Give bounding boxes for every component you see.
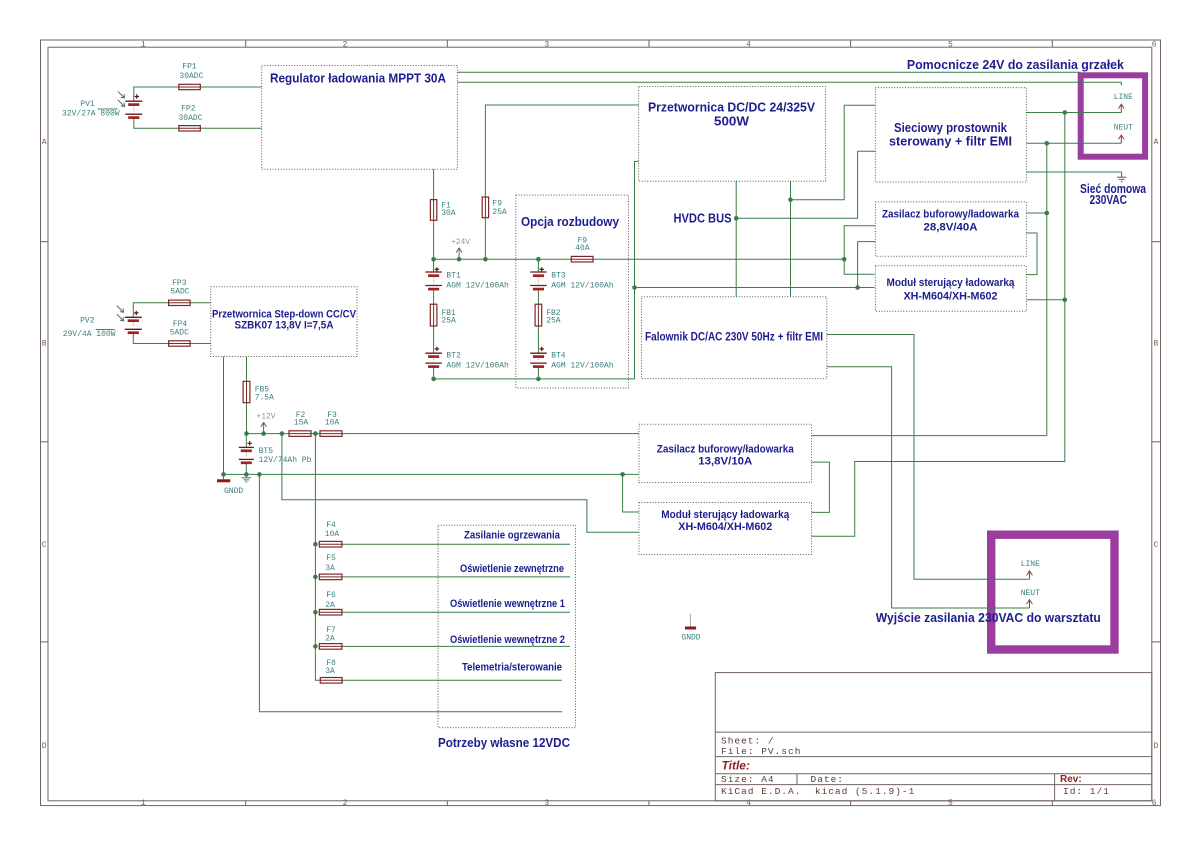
label FP2 fields [178, 105, 202, 123]
battery BT5 [239, 441, 254, 463]
svg-text:BT5: BT5 [259, 447, 274, 456]
junction nodes [221, 110, 1067, 649]
wire F9a to +24V bus [484, 218, 486, 260]
svg-text:12V/74Ah Pb: 12V/74Ah Pb [259, 456, 312, 465]
svg-text:AGM 12V/100Ah: AGM 12V/100Ah [551, 282, 614, 291]
svg-text:FP1: FP1 [182, 62, 197, 71]
label F3 fields [325, 411, 340, 428]
svg-text:F6: F6 [326, 591, 336, 600]
svg-text:Date:: Date: [811, 774, 845, 785]
wire GNDD bus [224, 473, 640, 475]
svg-text:6: 6 [1152, 799, 1157, 808]
wire Zasilacz24 in2 down to Modul24 wire [858, 242, 876, 288]
wire FP2 to MPPT in2 [200, 127, 261, 129]
wire battery bottom bus [434, 378, 635, 380]
wire BT5 minus stub [245, 464, 247, 474]
svg-text:SZBK07 13,8V I=7,5A: SZBK07 13,8V I=7,5A [235, 320, 334, 332]
wire Falownik out2 to NEUT2 pin [827, 367, 1030, 608]
svg-text:Id: 1/1: Id: 1/1 [1063, 786, 1110, 797]
wire DCDC in to F9a [485, 105, 638, 197]
svg-text:Zasilacz buforowy/ładowarka: Zasilacz buforowy/ładowarka [657, 444, 795, 456]
svg-text:2: 2 [343, 41, 348, 50]
wire Modul24 out stub [1027, 299, 1065, 301]
block box: Modul sterujacy ladowarka XH-M604/XH-M602 (24V) [875, 266, 1026, 311]
svg-text:2A: 2A [325, 635, 335, 644]
svg-text:Rev:: Rev: [1060, 774, 1082, 785]
block box: Regulator ladowania MPPT 30A [262, 66, 458, 170]
svg-text:PV1: PV1 [80, 100, 95, 109]
label FB1 fields [441, 309, 456, 325]
wire +24V node to Zasilacz24 in1 [844, 226, 875, 275]
label PV2 fields [63, 316, 116, 339]
wire prostownik out1 to LINE pin [1026, 112, 1121, 114]
wire +12V bus to F2 [247, 433, 290, 435]
wire stepdown out2 to gnd bus [223, 357, 225, 475]
svg-text:29V/4A 100W: 29V/4A 100W [63, 330, 116, 339]
wire BT5 plus stub [245, 434, 247, 448]
wire Falownik out1 to LINE2 pin [827, 335, 1030, 580]
svg-text:30ADC: 30ADC [178, 114, 202, 123]
svg-text:Zasilacz buforowy/ładowarka: Zasilacz buforowy/ładowarka [882, 209, 1020, 221]
svg-text:Falownik DC/AC 230V 50Hz + fil: Falownik DC/AC 230V 50Hz + filtr EMI [645, 332, 823, 344]
wire DCDC out-left down to node [635, 161, 639, 379]
svg-text:XH-M604/XH-M602: XH-M604/XH-M602 [678, 521, 772, 533]
net label: Siec domowa 230VAC [1080, 182, 1147, 207]
svg-text:A: A [42, 138, 47, 147]
wire node to Modul12 in1 [623, 474, 639, 512]
svg-text:Title:: Title: [722, 759, 750, 773]
title block [715, 673, 1152, 801]
svg-text:Size: A4: Size: A4 [721, 774, 775, 785]
svg-text:KiCad E.D.A. kicad (5.1.9)-1: KiCad E.D.A. kicad (5.1.9)-1 [721, 786, 915, 797]
svg-text:25A: 25A [441, 317, 456, 326]
label FP1 fields [179, 62, 203, 81]
svg-text:5ADC: 5ADC [170, 329, 189, 338]
svg-text:Zasilanie ogrzewania: Zasilanie ogrzewania [464, 530, 561, 542]
label F9 40A fields [575, 236, 590, 253]
svg-text:B: B [1153, 340, 1158, 349]
svg-text:25A: 25A [546, 317, 561, 326]
solar battery PV1 [118, 91, 143, 117]
svg-text:A: A [1153, 138, 1158, 147]
fuse F7 [319, 644, 342, 650]
label F2 fields [294, 411, 309, 428]
wire DCDC bottom to Falownik in1 (HVDC) [735, 181, 737, 297]
svg-text:Potrzeby własne 12VDC: Potrzeby własne 12VDC [438, 735, 571, 750]
block box: Potrzeby wlasne 12VDC [438, 525, 576, 727]
svg-text:HVDC BUS: HVDC BUS [674, 212, 732, 226]
wire node to prostownik in1 [791, 105, 876, 200]
fuse F1 [430, 200, 436, 221]
svg-text:5: 5 [948, 41, 953, 50]
wire BT1 string [433, 259, 435, 379]
svg-text:+12V: +12V [256, 413, 275, 422]
wire MPPT aux out2 [457, 82, 1121, 85]
svg-text:Moduł sterujący ładowarką: Moduł sterujący ładowarką [661, 509, 790, 521]
svg-text:32V/27A 800W: 32V/27A 800W [62, 110, 120, 119]
svg-text:Opcja rozbudowy: Opcja rozbudowy [521, 214, 620, 229]
svg-text:30ADC: 30ADC [179, 72, 203, 81]
fuse F4 [319, 541, 342, 547]
label BT2 fields [446, 351, 509, 370]
svg-text:Oświetlenie wewnętrzne 2: Oświetlenie wewnętrzne 2 [450, 634, 565, 646]
fuse FB1 [430, 304, 437, 326]
wire Zasilacz12 to Modul12 link [812, 462, 830, 512]
svg-text:Sieciowy prostownik: Sieciowy prostownik [894, 121, 1007, 135]
wire Zasilacz24 to Modul24 link [1026, 233, 1037, 275]
connector pin NEUT (warsztat) [1021, 589, 1040, 608]
svg-text:LINE: LINE [1114, 93, 1133, 102]
fuse F3 [320, 431, 342, 437]
annotation highlight box 2 (Wyjscie 230VAC connector) [991, 535, 1114, 650]
wire node to Modul24 in [635, 287, 875, 289]
battery BT1 [425, 267, 442, 289]
svg-text:2A: 2A [325, 601, 335, 610]
svg-text:3A: 3A [325, 564, 335, 573]
label BT3 fields [551, 271, 614, 290]
label FB2 fields [546, 309, 561, 325]
svg-text:NEUT: NEUT [1021, 589, 1040, 598]
label F5 fields [325, 554, 336, 573]
svg-text:3A: 3A [325, 667, 335, 676]
svg-text:500W: 500W [714, 115, 749, 129]
svg-text:File: PV.sch: File: PV.sch [721, 746, 801, 757]
power symbol +12V [256, 413, 275, 434]
svg-text:Przetwornica DC/DC 24/325V: Przetwornica DC/DC 24/325V [648, 101, 816, 115]
block box: Przetwornica DC/DC 24/325V 500W [639, 87, 826, 182]
block box: Zasilacz buforowy/ladowarka 13,8V/10A [639, 424, 812, 482]
label BT5 fields [259, 447, 312, 465]
block box: Falownik DC/AC 230V 50Hz + filtr EMI [642, 297, 827, 379]
label PV1 fields [62, 100, 120, 118]
svg-text:BT3: BT3 [551, 271, 566, 280]
label F7 fields [325, 626, 336, 644]
solar battery PV2 [117, 306, 142, 333]
svg-text:Pomocnicze 24V do zasilania gr: Pomocnicze 24V do zasilania grzałek [907, 57, 1125, 72]
svg-text:F4: F4 [326, 521, 336, 530]
svg-text:Wyjście zasilania 230VAC do wa: Wyjście zasilania 230VAC do warsztatu [876, 610, 1101, 625]
wire F4-F8 feeder [315, 434, 320, 681]
wire FP4 to stepdown in2 [190, 343, 211, 345]
power symbol GNDD (below Falownik) [681, 614, 700, 643]
svg-text:6: 6 [1152, 41, 1157, 50]
svg-text:GNDD: GNDD [224, 487, 243, 496]
fuse F9 40A [571, 256, 593, 262]
svg-text:F5: F5 [326, 554, 336, 563]
wire FP1 to MPPT in1 [200, 86, 261, 88]
connector pin NEUT (24V aux) [1114, 124, 1133, 144]
svg-text:3: 3 [544, 799, 549, 808]
wire NEUT node down to Zasilacz12 out [812, 143, 1047, 435]
svg-text:40A: 40A [575, 244, 590, 253]
label F9 25A fields [492, 199, 507, 217]
svg-text:15A: 15A [294, 419, 309, 428]
svg-text:BT2: BT2 [446, 351, 461, 360]
svg-text:PV2: PV2 [80, 316, 95, 325]
power symbol +24V [451, 238, 470, 259]
wire MPPT out to F1 [433, 169, 435, 199]
svg-text:AGM 12V/100Ah: AGM 12V/100Ah [446, 362, 509, 371]
svg-text:5ADC: 5ADC [170, 287, 189, 296]
svg-text:FP2: FP2 [181, 105, 196, 114]
label BT1 fields [446, 271, 509, 290]
wire DCDC bottom to Falownik in2 [790, 181, 792, 296]
fuse F9 25A [482, 197, 488, 218]
svg-text:230VAC: 230VAC [1089, 193, 1127, 207]
svg-text:3: 3 [544, 41, 549, 50]
fuse FP1 [179, 84, 201, 89]
wire PV2 plus to FP3 [133, 303, 168, 317]
svg-text:Regulator ładowania MPPT 30A: Regulator ładowania MPPT 30A [270, 71, 447, 86]
wire F2 to F3 [311, 433, 320, 435]
svg-text:10A: 10A [325, 530, 340, 539]
wire Zasilacz24 out stub [1026, 212, 1046, 214]
svg-text:1: 1 [141, 41, 146, 50]
svg-text:+24V: +24V [451, 238, 470, 247]
svg-text:Sheet: /: Sheet: / [721, 736, 775, 747]
wire PV2 minus to FP4 [133, 333, 168, 343]
wire LINE node down to Modul24 out and Modul12 [812, 113, 1065, 537]
svg-text:D: D [1153, 742, 1158, 751]
fuse F5 [319, 574, 342, 580]
fuse FB2 [535, 304, 542, 326]
label F8 fields [325, 659, 336, 676]
wire PV1 plus to FP1 [134, 87, 179, 101]
wire +24V bus right [593, 258, 844, 260]
label FP3 fields [170, 279, 189, 296]
annotation highlight box 1 (Pomocnicze 24V connector) [1081, 75, 1145, 156]
wire F1 to +24V bus [433, 220, 435, 259]
wire +24V bus left [434, 258, 572, 260]
svg-text:Oświetlenie zewnętrzne: Oświetlenie zewnętrzne [460, 563, 564, 575]
fuse FP3 [169, 300, 191, 305]
svg-text:BT4: BT4 [551, 351, 566, 360]
wire MPPT aux out1 [457, 71, 1080, 73]
fuse FB5 [243, 381, 250, 402]
battery BT4 [530, 347, 547, 367]
svg-text:LINE: LINE [1021, 560, 1040, 569]
svg-text:2: 2 [343, 799, 348, 808]
svg-text:GNDD: GNDD [681, 634, 700, 643]
label F4 fields [325, 521, 340, 539]
svg-text:B: B [42, 340, 47, 349]
battery BT2 [425, 347, 442, 367]
block box: Sieciowy prostownik sterowany + filtr EMI [875, 88, 1026, 182]
svg-text:sterowany + filtr EMI: sterowany + filtr EMI [889, 135, 1012, 149]
label FB5 fields [255, 385, 274, 402]
wire stepdown out1 to FB5 [246, 357, 248, 382]
block box: Modul sterujacy ladowarka XH-M604/XH-M602 (12V) [639, 503, 812, 555]
svg-text:7.5A: 7.5A [255, 394, 274, 403]
svg-text:28,8V/40A: 28,8V/40A [924, 222, 978, 234]
svg-text:NEUT: NEUT [1114, 124, 1133, 133]
svg-text:AGM 12V/100Ah: AGM 12V/100Ah [551, 362, 614, 371]
svg-text:25A: 25A [492, 208, 507, 217]
block box: Zasilacz buforowy/ladowarka 28,8V/40A [875, 202, 1026, 256]
wire HVDC node to prostownik in2 [736, 151, 875, 218]
fuse FP2 [179, 126, 201, 131]
svg-text:D: D [42, 742, 47, 751]
svg-text:30A: 30A [441, 209, 456, 218]
wire FP3 to stepdown in1 [190, 302, 211, 304]
svg-text:Oświetlenie wewnętrzne 1: Oświetlenie wewnętrzne 1 [450, 598, 565, 610]
wire F7 row [342, 645, 570, 647]
label F1 fields [441, 201, 456, 218]
fuse F6 [319, 609, 342, 615]
wire FB5 to +12V bus [246, 403, 248, 434]
label FP4 fields [170, 320, 189, 338]
fuse F2 [289, 431, 311, 437]
wire 12V return [259, 474, 562, 711]
svg-text:AGM 12V/100Ah: AGM 12V/100Ah [446, 282, 509, 291]
wire prostownik out3 to earth [1026, 171, 1121, 173]
block box: Opcja rozbudowy [516, 195, 629, 388]
wire F6 row [342, 611, 570, 613]
connector pin LINE (warsztat) [1021, 560, 1040, 579]
svg-text:C: C [1153, 541, 1158, 550]
wire BT3 string [537, 259, 539, 379]
earth ground below BT5 [242, 474, 251, 482]
svg-text:10A: 10A [325, 419, 340, 428]
earth ground Siec domowa [1117, 172, 1126, 182]
svg-text:13,8V/10A: 13,8V/10A [698, 456, 752, 468]
wire PV1 minus to FP2 [134, 118, 179, 128]
label F6 fields [325, 591, 336, 610]
svg-text:4: 4 [746, 41, 751, 50]
svg-text:Telemetria/sterowanie: Telemetria/sterowanie [462, 662, 562, 674]
svg-text:XH-M604/XH-M602: XH-M604/XH-M602 [904, 291, 998, 303]
battery BT3 [530, 267, 547, 289]
block box: Przetwornica Step-down CC/CV SZBK07 [211, 287, 357, 357]
fuse FP4 [169, 341, 191, 346]
wire F3 to Zasilacz12 in1 [342, 433, 639, 435]
wire F2F3 node down to Modul12 in2 [282, 434, 639, 533]
svg-text:BT1: BT1 [446, 271, 461, 280]
wire F4 row [342, 543, 570, 545]
svg-text:1: 1 [141, 799, 146, 808]
fuse F8 [320, 678, 342, 684]
connector pin LINE (24V aux) [1114, 93, 1133, 113]
wire F5 row [342, 576, 570, 578]
svg-text:Moduł sterujący ładowarką: Moduł sterujący ładowarką [887, 277, 1016, 289]
wire prostownik out2 to NEUT pin [1026, 142, 1121, 144]
power symbol GNDD (left) [217, 474, 243, 496]
svg-text:C: C [42, 541, 47, 550]
wire F8 row [342, 679, 562, 681]
label BT4 fields [551, 351, 614, 370]
